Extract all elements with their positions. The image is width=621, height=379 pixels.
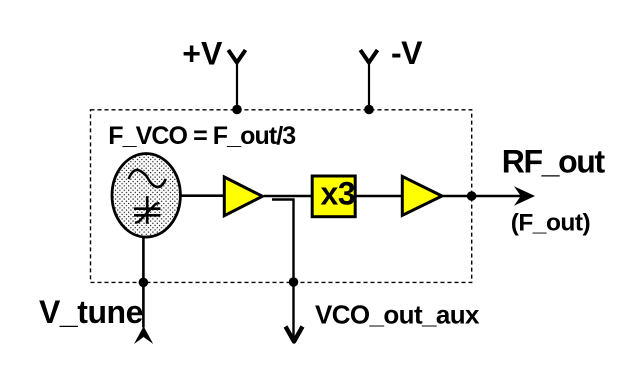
svg-text:(F_out): (F_out) xyxy=(511,210,591,237)
svg-text:+V: +V xyxy=(182,35,223,71)
svg-text:F_VCO = F_out/3: F_VCO = F_out/3 xyxy=(108,122,295,150)
svg-text:VCO_out_aux: VCO_out_aux xyxy=(315,299,480,329)
svg-text:V_tune: V_tune xyxy=(39,294,143,330)
svg-text:x3: x3 xyxy=(321,176,356,212)
svg-text:-V: -V xyxy=(391,35,423,71)
svg-text:RF_out: RF_out xyxy=(502,144,606,180)
